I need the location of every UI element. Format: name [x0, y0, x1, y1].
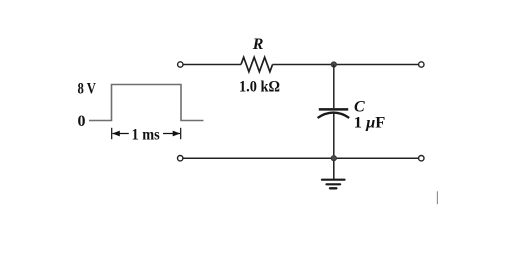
wire top-left to resistor — [183, 64, 241, 66]
wire junction down to capacitor — [333, 65, 335, 109]
node: bottom-right terminal — [419, 156, 424, 161]
svg-text:1.0 kΩ: 1.0 kΩ — [239, 78, 280, 95]
ground — [322, 161, 345, 188]
pulse waveform V_in — [89, 85, 204, 121]
node: bottom-left terminal — [178, 156, 183, 161]
svg-text:1 ms: 1 ms — [132, 126, 160, 143]
resistor R1 — [241, 57, 273, 72]
svg-text:0: 0 — [78, 113, 86, 130]
wire capacitor to bottom rail — [333, 114, 335, 159]
svg-text:C: C — [354, 99, 365, 116]
stray tick mark right — [436, 191, 438, 204]
capacitor C1 top plate — [319, 108, 348, 111]
node: top-left input terminal — [178, 62, 183, 67]
svg-text:R: R — [252, 36, 264, 53]
svg-text:8 V: 8 V — [78, 81, 97, 98]
wire resistor to top-right terminal — [273, 64, 419, 66]
node junction top — [331, 62, 336, 67]
svg-text:1 μF: 1 μF — [354, 114, 386, 131]
node: top-right output terminal — [419, 62, 424, 67]
wire bottom rail — [183, 157, 418, 159]
node junction bottom — [331, 156, 336, 161]
capacitor C1 curved plate — [318, 113, 350, 118]
dimension 1 ms — [112, 128, 181, 139]
